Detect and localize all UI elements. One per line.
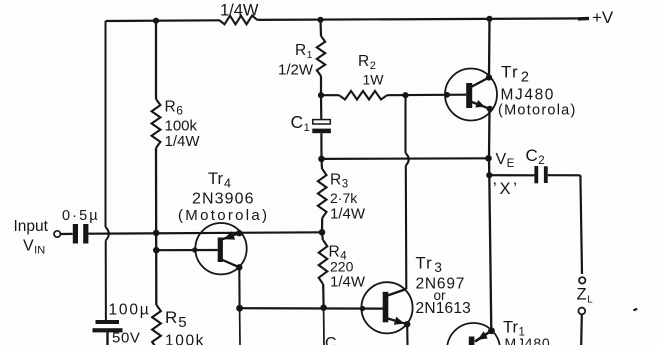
svg-text:2N1613: 2N1613 (416, 300, 472, 317)
svg-text:50V: 50V (112, 330, 141, 345)
svg-text:MJ480: MJ480 (501, 87, 556, 104)
svg-text:1W: 1W (363, 72, 385, 88)
svg-text:220: 220 (330, 259, 354, 275)
svg-text:100k: 100k (165, 333, 205, 345)
svg-text:0·5µ: 0·5µ (62, 208, 100, 224)
svg-text:2·7k: 2·7k (330, 190, 358, 206)
svg-text:+V: +V (592, 8, 614, 27)
svg-text:1/4W: 1/4W (220, 2, 259, 20)
svg-text:Input: Input (14, 218, 49, 235)
svg-text:MJ480: MJ480 (505, 335, 551, 345)
svg-text:100k: 100k (165, 118, 198, 135)
svg-text:1/4W: 1/4W (165, 133, 201, 150)
svg-text:1/4W: 1/4W (330, 206, 366, 223)
svg-text:C: C (325, 335, 337, 345)
svg-text:1/2W: 1/2W (278, 62, 314, 79)
svg-text:1/4W: 1/4W (330, 274, 366, 291)
svg-text:(Motorola): (Motorola) (178, 207, 269, 224)
svg-text:2N3906: 2N3906 (192, 191, 255, 208)
svg-text:(Motorola): (Motorola) (498, 103, 577, 119)
svg-text:’X’: ’X’ (493, 180, 520, 198)
svg-text:100µ: 100µ (109, 302, 151, 319)
